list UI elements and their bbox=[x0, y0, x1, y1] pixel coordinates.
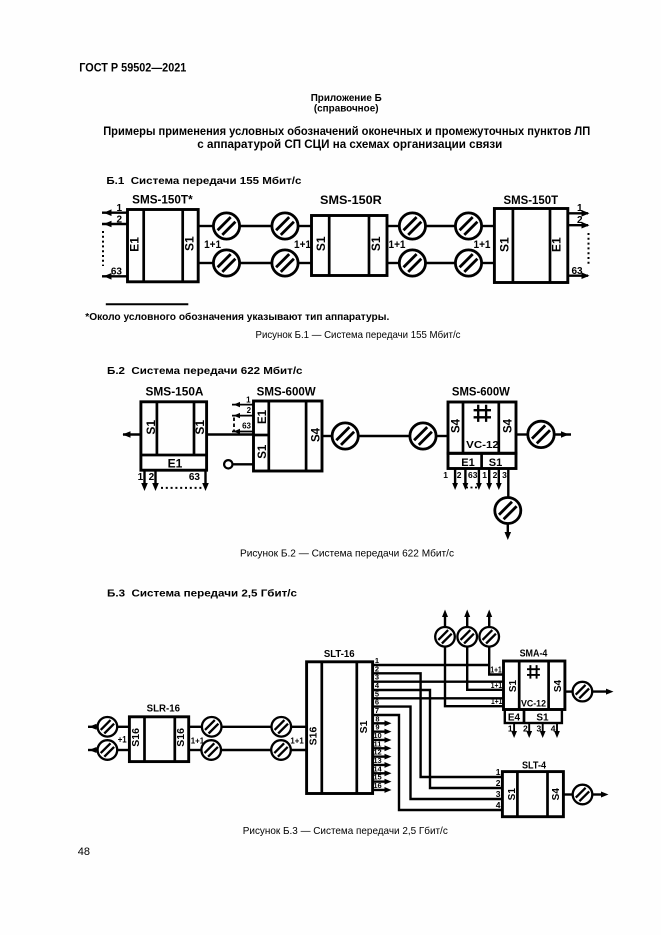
svg-text:S1: S1 bbox=[497, 237, 511, 252]
wire S1 line 15 stub bbox=[373, 780, 388, 782]
wire line section upper bbox=[240, 225, 272, 227]
svg-text:2: 2 bbox=[149, 472, 155, 483]
block SMS-150T* divider E1 bbox=[142, 210, 145, 282]
svg-text:S1: S1 bbox=[358, 720, 370, 733]
wire west aggregate bbox=[123, 433, 141, 435]
block SLR-16 divider right bbox=[173, 717, 176, 762]
optical connector top 2 bbox=[457, 627, 477, 647]
wire up 1 bbox=[444, 613, 446, 627]
arrow tributary 2 bbox=[234, 413, 241, 418]
block SLT-4 divider right bbox=[546, 772, 549, 817]
cross-connect symbol # bbox=[474, 405, 491, 422]
svg-text:Рисунок Б.2 — Система передачи: Рисунок Б.2 — Система передачи 622 Мбит/… bbox=[240, 547, 454, 559]
svg-text:1+1: 1+1 bbox=[491, 680, 503, 690]
wire E1 tributary 63 bbox=[568, 275, 588, 277]
arrow tributary 1 bbox=[141, 483, 148, 491]
svg-text:4: 4 bbox=[496, 800, 501, 810]
block SLT-4 divider left bbox=[516, 772, 519, 817]
svg-text:1+1: 1+1 bbox=[474, 239, 491, 251]
wire E1 tributary 1 bbox=[143, 470, 145, 487]
wire S4 out bbox=[516, 433, 528, 435]
wire S1 line 8 stub bbox=[373, 722, 388, 724]
block SLT-16 divider left bbox=[320, 662, 323, 794]
svg-text:S4: S4 bbox=[553, 679, 564, 692]
optical connector bbox=[272, 717, 292, 737]
svg-text:SLT-16: SLT-16 bbox=[324, 649, 355, 660]
wire lower out bbox=[189, 749, 202, 751]
arrow line 9 bbox=[385, 729, 392, 735]
svg-text:SMS-150T*: SMS-150T* bbox=[132, 192, 193, 206]
optical connector bbox=[528, 421, 554, 447]
wire open terminal bbox=[233, 463, 254, 465]
svg-text:63: 63 bbox=[111, 267, 123, 278]
wire upper in bbox=[291, 726, 307, 728]
optical connector bbox=[332, 423, 358, 449]
wire to regenerator lower bbox=[298, 262, 311, 264]
block SMS-600W divider left col bbox=[267, 401, 270, 471]
arrow tributary 63 bbox=[234, 429, 241, 434]
svg-text:S1: S1 bbox=[369, 236, 383, 251]
dotted ellipsis bbox=[466, 487, 477, 489]
svg-text:S4: S4 bbox=[551, 788, 562, 801]
arrow tributary 3 bbox=[540, 731, 546, 738]
svg-text:1+1: 1+1 bbox=[294, 239, 311, 251]
arrow up 1 bbox=[442, 610, 448, 618]
arrow tributary 1 bbox=[511, 731, 517, 738]
svg-text:63: 63 bbox=[572, 266, 584, 277]
wire S1 line 6 routed to SLT-4 in 3 bbox=[373, 707, 503, 799]
svg-text:4: 4 bbox=[551, 723, 556, 733]
svg-text:S1: S1 bbox=[257, 444, 269, 459]
svg-text:с аппаратурой СП СЦИ на схемах: с аппаратурой СП СЦИ на схемах организац… bbox=[197, 139, 502, 151]
wire east bbox=[554, 433, 571, 435]
optical connector upper D bbox=[455, 213, 481, 239]
svg-text:Е1: Е1 bbox=[549, 237, 563, 252]
optical connector lower D bbox=[455, 250, 481, 276]
svg-text:1+1: 1+1 bbox=[389, 239, 406, 251]
wire tributary 4 bbox=[556, 723, 558, 734]
svg-text:S16: S16 bbox=[175, 728, 187, 747]
block SLT-4 box bbox=[502, 772, 563, 817]
wire line section upper bbox=[222, 726, 272, 728]
svg-text:SLR-16: SLR-16 bbox=[147, 703, 181, 714]
wire E1 tributary 63 bbox=[478, 469, 480, 487]
svg-text:SMS-600W: SMS-600W bbox=[452, 386, 510, 398]
svg-text:S1: S1 bbox=[508, 679, 519, 692]
wire east bbox=[592, 690, 609, 692]
wire up 3 bbox=[488, 613, 490, 627]
svg-text:2: 2 bbox=[247, 406, 252, 415]
arrow tributary 63 bbox=[202, 483, 209, 491]
block SLT-16 box bbox=[307, 662, 373, 794]
block SMS-600W box bbox=[254, 401, 323, 471]
wire S1 tributary 3 down bbox=[507, 469, 509, 498]
wire east bbox=[592, 793, 604, 795]
arrow line 10 bbox=[385, 737, 392, 743]
svg-text:Рисунок Б.3 — Система передачи: Рисунок Б.3 — Система передачи 2,5 Гбит/… bbox=[243, 825, 448, 837]
svg-text:Б.2 Система передачи 622 Мбит: Б.2 Система передачи 622 Мбит/с bbox=[107, 365, 303, 377]
svg-text:S4: S4 bbox=[451, 418, 463, 433]
svg-text:3: 3 bbox=[496, 789, 501, 799]
wire line section bbox=[358, 435, 410, 437]
svg-text:2: 2 bbox=[496, 778, 501, 788]
block SMS-150A E1 strip divider bbox=[141, 454, 207, 457]
svg-text:S1: S1 bbox=[182, 236, 196, 251]
block SMS-600W strip divider bbox=[480, 453, 483, 468]
wire S1 lower bbox=[198, 262, 213, 264]
wire S1 upper bbox=[198, 225, 213, 227]
arrow tributary 1 bbox=[582, 210, 590, 217]
wire tributary 2 bbox=[528, 723, 530, 734]
wire S1 lower bbox=[387, 262, 399, 264]
optical connector lower B bbox=[272, 250, 298, 276]
wire stem 1 bbox=[445, 647, 504, 707]
wire S4 in bbox=[436, 435, 448, 437]
svg-text:SMA-4: SMA-4 bbox=[520, 649, 548, 660]
svg-text:2: 2 bbox=[457, 470, 462, 480]
arrow line 8 bbox=[385, 720, 392, 726]
svg-text:1: 1 bbox=[246, 396, 251, 405]
wire stem 2 bbox=[467, 647, 503, 690]
svg-text:S16: S16 bbox=[130, 728, 142, 747]
svg-text:S1: S1 bbox=[489, 457, 502, 469]
optical connector upper B bbox=[272, 213, 298, 239]
svg-text:1+1: 1+1 bbox=[290, 736, 304, 746]
arrow tributary 1 bbox=[104, 209, 112, 216]
svg-text:2: 2 bbox=[577, 215, 583, 226]
wire E1 tributary 2 bbox=[568, 224, 588, 226]
svg-text:2: 2 bbox=[493, 470, 498, 480]
svg-text:ГОСТ Р 59502—2021: ГОСТ Р 59502—2021 bbox=[79, 60, 186, 74]
svg-text:S1: S1 bbox=[536, 713, 549, 724]
svg-text:Рисунок Б.1 — Система передачи: Рисунок Б.1 — Система передачи 155 Мбит/… bbox=[256, 329, 461, 341]
wire E1 tributary 2 bbox=[154, 470, 156, 487]
arrow tributary 1 bbox=[234, 402, 241, 407]
arrow east bbox=[561, 431, 569, 438]
svg-text:Примеры применения условных об: Примеры применения условных обозначений … bbox=[103, 126, 590, 138]
block SMS-150R divider right bbox=[368, 216, 371, 276]
arrow line 16 bbox=[385, 787, 392, 793]
svg-text:SMS-150T: SMS-150T bbox=[504, 193, 559, 207]
wire S1 line 4 routed to SLT-4 in 2 bbox=[373, 690, 503, 788]
wire E1 tributary 2 bbox=[102, 223, 128, 225]
dotted ellipsis tributaries bbox=[102, 231, 104, 266]
svg-text:VC-12: VC-12 bbox=[521, 698, 546, 708]
block SMA-4 divider right bbox=[547, 661, 550, 710]
wire stem 3 bbox=[489, 647, 503, 675]
wire upper out bbox=[189, 726, 202, 728]
wire tributary 1 bbox=[232, 404, 254, 406]
arrow tributary 2 bbox=[104, 221, 112, 228]
wire line section lower bbox=[426, 262, 456, 264]
arrow west upper bbox=[89, 724, 97, 730]
wire S1 line 10 stub bbox=[373, 739, 388, 741]
arrow east bbox=[601, 792, 609, 798]
svg-text:3: 3 bbox=[502, 470, 507, 480]
footnote rule bbox=[106, 303, 189, 305]
wire S4 out bbox=[565, 690, 573, 692]
svg-text:1: 1 bbox=[508, 723, 513, 733]
arrow line 15 bbox=[385, 779, 392, 785]
wire S1 line 3 to SMA-4 bbox=[373, 680, 504, 682]
block SMA-4 strip divider bbox=[523, 710, 526, 724]
optical connector bbox=[98, 740, 118, 760]
block SMS-150T divider E1 bbox=[549, 209, 552, 283]
wire S1 line 9 stub bbox=[373, 730, 388, 732]
svg-text:16: 16 bbox=[373, 781, 381, 790]
block SMA-4 box bbox=[504, 661, 565, 710]
block SMS-150T box bbox=[494, 209, 567, 283]
wire S1 line 11 stub bbox=[373, 747, 388, 749]
wire line section upper bbox=[426, 225, 456, 227]
svg-text:S4: S4 bbox=[503, 418, 515, 433]
block SMS-600W divider right col bbox=[305, 401, 308, 471]
svg-text:SLT-4: SLT-4 bbox=[522, 760, 546, 771]
wire to terminal lower bbox=[482, 262, 495, 264]
svg-text:1+1: 1+1 bbox=[491, 696, 503, 706]
svg-text:48: 48 bbox=[78, 846, 90, 858]
wire tributary 2 bbox=[232, 415, 254, 417]
svg-text:1: 1 bbox=[482, 470, 487, 480]
wire to regenerator upper bbox=[298, 225, 311, 227]
block SMS-600W divider left col bbox=[462, 402, 465, 453]
wire lower bbox=[117, 749, 129, 751]
svg-text:Е1: Е1 bbox=[168, 456, 183, 470]
wire S1 line 1 to connector stem bbox=[373, 664, 490, 666]
wire S1 tributary 1 bbox=[488, 469, 490, 487]
block SLR-16 divider left bbox=[143, 717, 146, 762]
wire tributary 1 bbox=[513, 723, 515, 734]
svg-text:S1: S1 bbox=[507, 788, 518, 801]
svg-text:2: 2 bbox=[116, 215, 122, 226]
optical connector lower A bbox=[213, 250, 239, 276]
block SMS-150T divider S1 bbox=[512, 209, 515, 283]
svg-text:1: 1 bbox=[496, 767, 501, 777]
wire line section lower bbox=[240, 262, 272, 264]
svg-text:+1: +1 bbox=[118, 735, 127, 745]
optical connector bbox=[201, 740, 221, 760]
optical connector bbox=[573, 682, 593, 702]
wire S1 tributary 2 bbox=[498, 469, 500, 487]
wire S1 interconnect bbox=[207, 433, 254, 435]
dotted ellipsis tributaries bbox=[161, 487, 202, 489]
svg-text:SMS-150A: SMS-150A bbox=[146, 387, 204, 399]
svg-text:1: 1 bbox=[443, 470, 448, 480]
arrow tributary 2 bbox=[496, 483, 502, 490]
svg-text:S16: S16 bbox=[308, 727, 320, 746]
arrow tributary 2 bbox=[526, 731, 532, 738]
wire S1 line 2 routed to SLT-4 in 1 bbox=[373, 673, 503, 777]
wire S1 line 16 stub bbox=[373, 789, 388, 791]
wire S1 line 13 stub bbox=[373, 764, 388, 766]
svg-text:Е4: Е4 bbox=[508, 713, 521, 724]
svg-text:63: 63 bbox=[189, 472, 201, 483]
block SMS-600W bottom strip bbox=[448, 453, 516, 468]
wire S1 line 5 to SMA-4 bbox=[373, 697, 504, 699]
svg-text:1: 1 bbox=[116, 203, 122, 214]
svg-text:Е1: Е1 bbox=[461, 457, 474, 469]
wire S1 line 12 stub bbox=[373, 755, 388, 757]
optical connector lower C bbox=[399, 250, 425, 276]
arrow tributary 63 bbox=[104, 273, 112, 280]
svg-text:63: 63 bbox=[242, 422, 251, 431]
block SLT-16 divider right bbox=[355, 662, 358, 794]
dotted ellipsis tributaries bbox=[588, 233, 590, 266]
wire E1 tributary 1 bbox=[454, 469, 456, 487]
block SMS-600W box bbox=[448, 402, 516, 453]
arrow tributary 63 bbox=[582, 272, 590, 279]
arrow south bbox=[505, 532, 512, 540]
arrow tributary 4 bbox=[554, 731, 560, 738]
block SMA-4 divider left bbox=[518, 661, 521, 710]
block SMS-150T* divider S1 bbox=[181, 210, 184, 282]
wire tributary 63 bbox=[232, 431, 254, 433]
optical connector top 1 bbox=[435, 627, 455, 647]
arrow up 3 bbox=[486, 610, 492, 618]
optical connector upper C bbox=[399, 213, 425, 239]
wire line section lower bbox=[221, 749, 271, 751]
wire upper bbox=[117, 726, 129, 728]
optical connector bbox=[98, 717, 118, 737]
optical connector upper A bbox=[213, 213, 239, 239]
svg-text:1: 1 bbox=[577, 203, 583, 214]
wire E1 tributary 1 bbox=[568, 212, 588, 214]
wire S1 line 7 routed to SLT-4 in 4 bbox=[373, 715, 503, 810]
arrow up 2 bbox=[464, 610, 470, 618]
arrow tributary 1 bbox=[486, 483, 492, 490]
svg-text:1: 1 bbox=[138, 472, 144, 483]
block SMS-150A box bbox=[141, 402, 207, 470]
optical connector bbox=[410, 423, 436, 449]
svg-text:3: 3 bbox=[536, 723, 541, 733]
wire S1 line 14 stub bbox=[373, 772, 388, 774]
svg-text:Б.1 Система передачи 155 Мбит: Б.1 Система передачи 155 Мбит/с bbox=[106, 175, 301, 187]
svg-text:SMS-600W: SMS-600W bbox=[257, 387, 316, 399]
svg-text:(справочное): (справочное) bbox=[314, 103, 379, 115]
optical connector bbox=[271, 740, 291, 760]
optical connector bbox=[202, 717, 222, 737]
svg-text:1+1: 1+1 bbox=[490, 665, 502, 675]
arrow tributary 63 bbox=[476, 483, 482, 490]
svg-text:S1: S1 bbox=[314, 236, 328, 251]
wire up 2 bbox=[466, 613, 468, 627]
wire lower in bbox=[291, 749, 307, 751]
optical connector top 3 bbox=[479, 627, 499, 647]
arrow tributary 2 bbox=[582, 222, 590, 229]
wire S4 out bbox=[563, 793, 573, 795]
arrow tributary 1 bbox=[452, 483, 458, 490]
wire E1 tributary 63 bbox=[102, 275, 128, 277]
arrow line 14 bbox=[385, 770, 392, 776]
svg-text:1+1: 1+1 bbox=[204, 239, 221, 251]
cross-connect symbol # bbox=[527, 665, 540, 679]
wire S4 out bbox=[322, 435, 332, 437]
wire S1 upper bbox=[387, 225, 399, 227]
arrow west bbox=[123, 431, 131, 438]
wire tributary 3 south bbox=[507, 524, 509, 537]
block SMS-600W E1/S1 divider bbox=[254, 434, 269, 437]
svg-text:S1: S1 bbox=[144, 420, 158, 435]
terminal circle bbox=[224, 460, 232, 468]
svg-text:Е1: Е1 bbox=[257, 409, 269, 424]
dashed ellipsis tributaries bbox=[233, 418, 235, 432]
block SMS-150A divider right bbox=[193, 402, 196, 455]
svg-text:2: 2 bbox=[523, 723, 528, 733]
arrow tributary 2 bbox=[152, 483, 159, 491]
wire west upper bbox=[88, 726, 98, 728]
arrow line 13 bbox=[385, 762, 392, 768]
wire E1 tributary 1 bbox=[102, 211, 128, 213]
arrow tributary 2 bbox=[463, 483, 469, 490]
arrow east bbox=[606, 689, 614, 695]
arrow line 12 bbox=[385, 754, 392, 760]
block SMS-150A divider left bbox=[156, 402, 159, 455]
wire E1 tributary 63 bbox=[204, 470, 206, 487]
block SMS-150T* box bbox=[128, 210, 199, 282]
svg-text:S1: S1 bbox=[193, 420, 207, 435]
arrow west lower bbox=[89, 747, 97, 753]
block SMS-600W divider right col bbox=[497, 402, 500, 453]
svg-text:63: 63 bbox=[468, 470, 478, 480]
wire to terminal upper bbox=[482, 225, 495, 227]
svg-text:VC-12: VC-12 bbox=[466, 439, 499, 451]
svg-text:*Около условного обозначения у: *Около условного обозначения указывают т… bbox=[85, 311, 389, 323]
wire tributary 3 bbox=[542, 723, 544, 734]
svg-text:S4: S4 bbox=[310, 427, 322, 442]
block SLR-16 box bbox=[129, 717, 188, 762]
optical connector bbox=[495, 498, 521, 524]
wire E1 tributary 2 bbox=[464, 469, 466, 487]
optical connector bbox=[573, 785, 593, 805]
svg-text:SMS-150R: SMS-150R bbox=[320, 193, 382, 207]
svg-text:Б.3 Система передачи 2,5 Гбит: Б.3 Система передачи 2,5 Гбит/с bbox=[107, 588, 297, 600]
arrow line 11 bbox=[385, 745, 392, 751]
block SMS-150R box bbox=[312, 216, 388, 276]
block SMA-4 bottom strip bbox=[505, 710, 562, 724]
svg-text:Е1: Е1 bbox=[128, 237, 142, 252]
block SMS-150R divider left bbox=[328, 216, 331, 276]
wire west lower bbox=[88, 749, 98, 751]
